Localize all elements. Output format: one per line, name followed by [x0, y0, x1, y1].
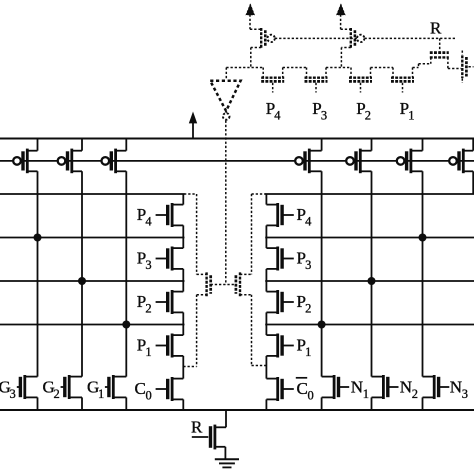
- svg-text:R: R: [191, 418, 203, 437]
- wire: precharge clock gate line: [0, 160, 474, 162]
- svg-text:4: 4: [274, 109, 281, 123]
- dashed wire: left bypass bottom tap to left chain: [196, 295, 198, 367]
- wire: G1 column vertical: [125, 171, 127, 376]
- pmos precharge transistor M5: [346, 157, 354, 165]
- dashed wire: bypass gate tie: [211, 284, 236, 286]
- dashed wire: right bypass bottom tap to right chain: [251, 295, 253, 366]
- nmos kill transistor N1: [339, 386, 350, 388]
- dashed inverter output bubble: [223, 113, 230, 120]
- wire: carry node line C2 (left): [0, 280, 185, 282]
- dashed series nmos P3 (skip chain): [306, 68, 308, 78]
- svg-text:2: 2: [412, 387, 418, 401]
- svg-text:C: C: [135, 379, 146, 398]
- svg-text:1: 1: [98, 387, 104, 401]
- wire: rightmost precharge drain to C4 line: [472, 171, 474, 194]
- junction dot N1 column / C1 line: [318, 321, 326, 329]
- nmos pass transistor P1 (right stack): [282, 345, 294, 347]
- nmos kill transistor N2: [388, 386, 399, 388]
- svg-text:N: N: [450, 378, 462, 397]
- svg-text:2: 2: [365, 109, 371, 123]
- junction dot N2 column / C2 line: [368, 277, 376, 285]
- svg-text:0: 0: [308, 389, 314, 403]
- svg-text:3: 3: [305, 258, 311, 272]
- svg-text:3: 3: [10, 387, 16, 401]
- svg-text:1: 1: [305, 345, 311, 359]
- svg-text:1: 1: [145, 345, 151, 359]
- wire: G3 column vertical: [37, 171, 39, 376]
- pmos precharge transistor M1: [13, 157, 21, 165]
- dashed pmos pullup 1: [249, 15, 251, 30]
- overline of C0bar label: [296, 377, 307, 379]
- svg-text:0: 0: [146, 389, 152, 403]
- svg-text:C: C: [297, 379, 308, 398]
- dashed series nmos P2 (skip chain): [350, 68, 352, 78]
- output arrow (carry out) on top rail: [192, 123, 194, 139]
- wire: VDD top rail: [0, 138, 474, 140]
- svg-text:3: 3: [321, 109, 327, 123]
- wire: left stack chain: [182, 194, 184, 205]
- dashed wire: gate line from pullup bubbles to R: [275, 37, 357, 39]
- nmos pass transistor P4 (left stack): [156, 214, 168, 216]
- wire: N1 column vertical: [321, 171, 323, 376]
- junction dot G1 column / C1 line: [122, 321, 130, 329]
- wire: G2 column vertical: [81, 171, 83, 376]
- svg-text:R: R: [430, 19, 442, 38]
- wire: ground bottom rail: [0, 409, 474, 411]
- svg-text:4: 4: [145, 215, 152, 229]
- wire: carry node line C3 (right): [265, 237, 474, 239]
- dashed inverter U1: [210, 81, 240, 111]
- nmos reset transistor R (bottom): [192, 436, 209, 438]
- nmos pass transistor P2 (left stack): [156, 301, 168, 303]
- junction dot G2 column / C2 line: [78, 277, 86, 285]
- nmos pass transistor C0 (left stack): [156, 388, 168, 390]
- pmos precharge transistor M6: [397, 157, 405, 165]
- ground symbol: [215, 458, 239, 460]
- dashed supply arrow for pullup 2: [337, 4, 346, 15]
- nmos pass transistor P3 (right stack): [282, 258, 294, 260]
- dashed wire: inverter output down to bypass gates: [225, 121, 227, 285]
- dashed nmos bypass transistor (left): [209, 275, 212, 293]
- dashed pmos pullup 2: [340, 15, 342, 30]
- pmos precharge transistor M4: [295, 157, 303, 165]
- svg-text:N: N: [400, 378, 412, 397]
- dashed wire: left bypass top tap to left stack top: [184, 193, 197, 195]
- svg-text:1: 1: [363, 387, 369, 401]
- dashed wire: right bypass top tap to right stack top: [252, 193, 267, 195]
- pmos precharge transistor M2: [58, 157, 66, 165]
- dashed edge transistor (next stage, cropped): [461, 55, 463, 78]
- svg-text:N: N: [351, 378, 363, 397]
- nmos pass transistor P4 (right stack): [282, 214, 294, 216]
- nmos generate transistor G3: [17, 386, 21, 388]
- svg-text:2: 2: [305, 302, 311, 316]
- dashed nmos bypass transistor (right): [235, 275, 238, 293]
- dashed wire: series chain horizontal segments: [226, 67, 263, 69]
- nmos pass transistor P2 (right stack): [282, 301, 294, 303]
- svg-text:3: 3: [462, 387, 468, 401]
- wire: carry node line C1 (left): [0, 324, 185, 326]
- nmos pass transistor P1 (left stack): [156, 345, 168, 347]
- wire: N2 column vertical: [371, 171, 373, 376]
- wire: carry node line C2 (right): [265, 280, 474, 282]
- nmos pass transistor P3 (left stack): [156, 258, 168, 260]
- nmos generate transistor G1: [105, 386, 109, 388]
- wire: right stack chain: [265, 194, 267, 205]
- svg-text:2: 2: [54, 387, 60, 401]
- nmos pass transistor C0bar (right stack): [282, 388, 294, 390]
- wire: carry node line C3 (left): [0, 237, 185, 239]
- wire: carry node line C1 (right): [265, 324, 474, 326]
- nmos generate transistor G2: [61, 386, 65, 388]
- svg-text:1: 1: [408, 109, 414, 123]
- dashed wire: R device right lead: [447, 58, 449, 69]
- dashed wire: chain right jog up to R device: [418, 64, 420, 68]
- wire: N3 column vertical: [422, 171, 424, 376]
- dashed supply arrow for pullup 1: [246, 4, 255, 15]
- dashed wire: inverter input vertical: [225, 68, 227, 81]
- dashed nmos R (skip output): [439, 38, 441, 51]
- junction dot N3 column / C3 line: [419, 234, 427, 242]
- dashed series nmos P1 (skip chain): [392, 68, 394, 78]
- svg-text:2: 2: [145, 302, 151, 316]
- pmos precharge transistor M7: [449, 157, 457, 165]
- svg-text:3: 3: [145, 258, 151, 272]
- wire: carry node line C4 (left): [0, 193, 185, 195]
- svg-text:4: 4: [305, 215, 312, 229]
- junction dot G3 column / C3 line: [34, 234, 42, 242]
- nmos kill transistor N3: [439, 386, 450, 388]
- dashed series nmos P4 (skip chain): [262, 68, 264, 78]
- pmos precharge transistor M3: [102, 157, 110, 165]
- wire: carry node line C4 (right): [265, 193, 474, 195]
